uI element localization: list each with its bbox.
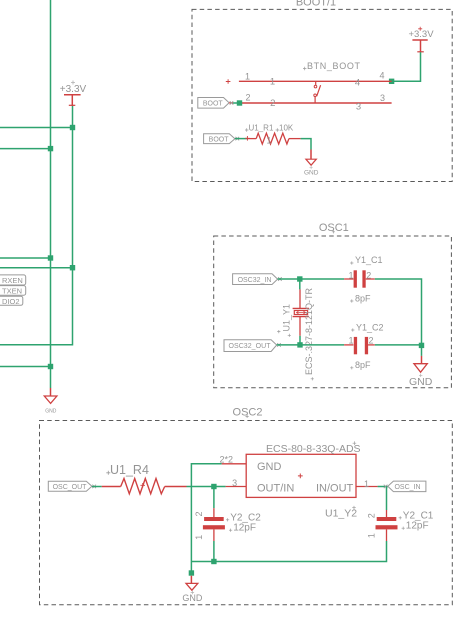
net label RXEN [0,275,26,285]
wire R4 to pin3 [187,486,226,488]
svg-text:2: 2 [368,335,373,345]
switch S1 BTN_BOOT [226,61,392,113]
junction (213.9,561.5) [211,559,216,564]
svg-text:RXEN: RXEN [2,276,23,285]
svg-text:4: 4 [379,71,384,81]
ground GND1 left [44,388,57,415]
svg-text:TXEN: TXEN [2,286,22,295]
junction (72.5,127.5) [70,125,75,130]
wire H y=127.5 [0,127,73,129]
wire OSC32_IN to C1 [278,278,345,280]
svg-text:BOOT: BOOT [209,136,230,143]
wire V2 vertical net from +3.3V [0,106,73,345]
svg-text:Y1_C2: Y1_C2 [356,322,384,332]
junction (191.4,573) [189,570,194,575]
wire OSC32_OUT to C2 [277,344,344,346]
wire BOOT a to pin2 [233,102,242,104]
net flag OSC_IN [384,481,426,492]
capacitor Y1_C2 8pF [344,322,383,370]
svg-text:OSC32_IN: OSC32_IN [238,277,272,284]
svg-text:Y1_C1: Y1_C1 [355,255,383,265]
svg-text:1: 1 [194,535,204,540]
junction (213.9,486.5) [211,484,216,489]
net label DIO2 [0,296,23,306]
svg-text:U1_Y1: U1_Y1 [281,304,291,332]
frame OSC2 dashed box [40,406,453,604]
frame OSC1 dashed box [214,222,452,388]
wire H y=366.5 [0,366,51,368]
junction (50.5,258) [48,255,53,260]
svg-text:GND: GND [182,593,203,603]
junction (239.5,103) [237,100,242,105]
svg-text:2: 2 [270,98,275,109]
svg-text:12pF: 12pF [233,523,256,534]
wire C1 down to bottom rail [191,541,386,562]
svg-text:OSC_OUT: OSC_OUT [53,484,88,491]
wire BOOT b to R1 [235,138,248,140]
svg-text:BOOT: BOOT [203,101,224,108]
svg-text:IN/OUT: IN/OUT [316,483,354,495]
svg-text:8pF: 8pF [355,360,371,370]
svg-text:U1_Y2: U1_Y2 [325,508,357,520]
capacitor Y2_C2 12pF [194,508,261,561]
svg-text:8pF: 8pF [355,293,371,303]
svg-text:1: 1 [348,335,353,345]
svg-text:OSC_IN: OSC_IN [394,484,420,491]
svg-text:GND: GND [45,409,57,415]
svg-text:GND: GND [409,376,433,388]
crystal U1_Y1 [281,281,314,380]
svg-text:12pF: 12pF [406,521,429,532]
junction (72.5,267.7) [70,265,75,270]
svg-text:U1_R1: U1_R1 [249,124,274,133]
net flag BOOT a [198,98,234,109]
net flag BOOT b [204,134,240,144]
svg-text:GND: GND [304,170,319,177]
capacitor Y1_C1 8pF [344,255,382,303]
wire C2 branch [213,487,215,509]
svg-text:3: 3 [356,102,361,113]
net flag OSC32_IN [233,274,282,285]
ground GND3 osc1 [409,345,433,388]
oscillator U1_Y2 ECS-80-8-33Q-ADS [220,441,378,519]
svg-text:BTN_BOOT: BTN_BOOT [307,61,361,71]
svg-text:Y2_C1: Y2_C1 [403,510,434,521]
capacitor Y2_C1 12pF [367,510,434,541]
svg-text:4: 4 [355,77,360,88]
frame BOOT/1 dashed box [192,0,452,182]
svg-text:2: 2 [194,511,204,516]
wire C2 to right rail [375,344,422,346]
svg-text:ECS-.327-8-121Q-TR: ECS-.327-8-121Q-TR [304,287,314,375]
svg-text:2: 2 [245,93,250,103]
svg-text:GND: GND [257,461,282,473]
svg-text:U1_R4: U1_R4 [110,463,149,477]
junction (421.5,345.4) [419,343,424,348]
wire H y=258 [0,257,51,259]
wire right cap rail [386,487,388,511]
svg-text:OSC32_OUT: OSC32_OUT [229,343,272,350]
net flag OSC32_OUT [224,330,281,352]
svg-text:+3.3V: +3.3V [60,84,87,95]
resistor U1_R4 [102,463,187,494]
power +3.3V boot [408,27,434,52]
svg-text:3: 3 [232,478,237,488]
svg-text:OUT/IN: OUT/IN [257,483,294,495]
ground GND2 boot [304,150,319,177]
junction (50.5,366.5) [48,364,53,369]
svg-text:10K: 10K [279,124,294,133]
net flag OSC_OUT [48,481,96,491]
wire OSC_OUT to R4 [92,486,102,488]
svg-text:2: 2 [367,513,377,518]
svg-text:1: 1 [266,135,271,145]
svg-text:1: 1 [348,271,353,281]
net label TXEN [0,286,26,296]
svg-text:1: 1 [270,77,275,88]
junction (300,344.9) [297,342,302,347]
svg-text:BOOT/1: BOOT/1 [296,0,336,9]
junction (391.6,81.3) [389,79,394,84]
svg-text:3: 3 [380,93,385,103]
svg-text:2: 2 [366,271,371,281]
ground GND4 osc2 [182,576,203,604]
junction (299.8,279) [297,276,302,281]
svg-text:2*2: 2*2 [220,454,234,464]
wire V1 vertical net [50,0,52,388]
junction (50.5,148.6) [48,146,53,151]
svg-text:+3.3V: +3.3V [408,29,434,40]
svg-text:1: 1 [367,533,377,538]
svg-text:ECS-80-8-33Q-ADS: ECS-80-8-33Q-ADS [266,443,361,455]
wire +3.3V to pin4 [392,52,421,81]
wire R1 to gnd [301,139,311,150]
wire pin1 to OSC_IN [378,486,388,488]
svg-text:1: 1 [364,479,369,489]
resistor U1_R1 10K [245,124,301,146]
svg-text:DIO2: DIO2 [2,297,20,306]
wire C1 to right rail [375,279,422,345]
svg-text:1: 1 [245,71,250,81]
power +3.3V left [60,81,87,106]
wire H y=267.7 [0,267,73,269]
wire H y=148.6 [0,148,51,150]
wire pin2 gnd run [191,464,221,573]
